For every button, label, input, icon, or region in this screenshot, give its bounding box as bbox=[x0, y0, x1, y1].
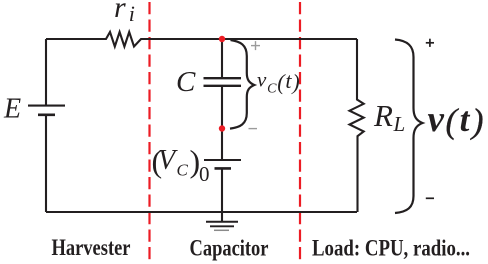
svg-text:L: L bbox=[393, 112, 406, 136]
svg-text:R: R bbox=[373, 98, 393, 133]
svg-text:v(t): v(t) bbox=[428, 99, 484, 141]
svg-text:ri: ri bbox=[114, 0, 135, 26]
svg-text:E: E bbox=[3, 94, 21, 125]
svg-text:C: C bbox=[176, 66, 196, 98]
svg-text:vC(t): vC(t) bbox=[257, 68, 300, 97]
svg-text:V: V bbox=[158, 145, 178, 176]
svg-text:Capacitor: Capacitor bbox=[190, 236, 269, 261]
svg-text:Harvester: Harvester bbox=[52, 235, 131, 260]
svg-text:Load: CPU, radio...: Load: CPU, radio... bbox=[312, 236, 470, 261]
svg-text:0: 0 bbox=[199, 162, 210, 186]
svg-text:C: C bbox=[177, 161, 189, 180]
